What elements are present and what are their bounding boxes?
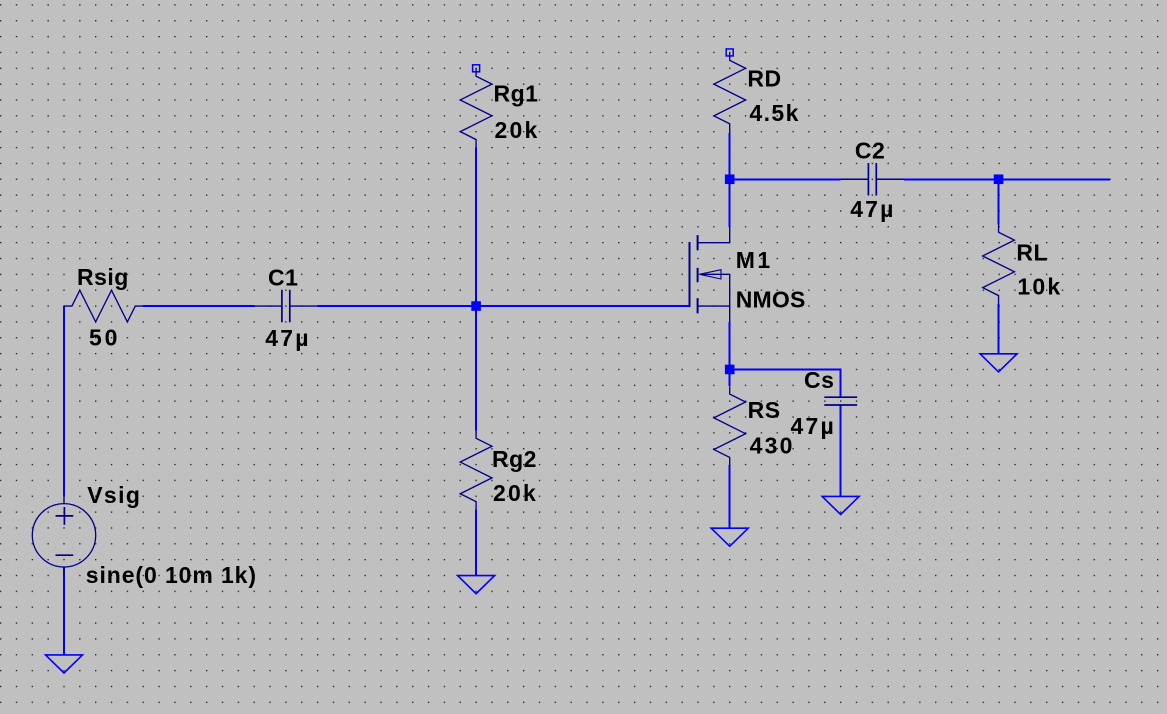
svg-text:sine(0 10m 1k): sine(0 10m 1k) [86,562,257,588]
terminal square (RD top) [726,49,733,56]
wire: M1 source to node C [729,322,731,370]
wire: Rg1 terminal lead to node A (vertical) [475,148,477,307]
ground (RS) [711,528,748,546]
wire: node A down to Rg2 top [475,306,477,430]
svg-text:RL: RL [1016,240,1048,266]
svg-text:NMOS: NMOS [736,287,806,313]
wire: node B down to RL top [998,179,1000,224]
svg-text:Rg1: Rg1 [494,81,539,107]
capacitor C1 [254,290,317,323]
capacitor C2 [841,163,904,196]
wire: RD bottom to drain node [729,133,731,179]
svg-text:Rg2: Rg2 [492,446,537,472]
svg-text:20k: 20k [495,117,540,143]
svg-text:M1: M1 [736,247,773,273]
svg-text:Vsig: Vsig [87,482,141,508]
ground (Rg2) [458,576,495,594]
wire: Rsig right to C1 left (main horizontal) [143,305,254,307]
wire: C2 right to output end through node B [904,178,1110,180]
capacitor Cs [824,397,857,405]
terminal square (Rg1 top) [473,65,480,72]
svg-text:C1: C1 [268,264,298,290]
svg-text:47µ: 47µ [850,196,895,222]
wire: RS bottom to ground [729,465,731,528]
node B junction [994,174,1004,184]
wire: drain node to M1 drain [729,179,731,227]
voltage source Vsig [32,496,95,575]
node C junction (source) [725,365,735,375]
svg-text:47µ: 47µ [265,325,310,351]
svg-text:Cs: Cs [804,367,834,393]
resistor RD [714,52,746,133]
svg-text:50: 50 [89,325,120,351]
svg-text:10k: 10k [1017,274,1062,300]
svg-text:Rsig: Rsig [77,264,129,290]
svg-text:RS: RS [748,397,781,423]
wire: node C to Cs top corner [730,369,841,397]
wire: Cs bottom to ground [840,405,842,496]
resistor Rg2 [460,430,492,509]
ground (RL) [980,354,1017,372]
svg-text:20k: 20k [493,480,538,506]
wire: Vsig bottom to ground [63,567,65,655]
svg-text:RD: RD [747,65,781,91]
resistor Rg1 [460,68,492,147]
svg-text:4.5k: 4.5k [749,100,799,126]
wire: C1 right to M1 gate through node A [318,305,690,307]
resistor RL [983,224,1015,303]
ground (Cs) [822,496,859,514]
wire: Rg2 bottom to ground [475,510,477,576]
wire: RL bottom to ground [998,303,1000,353]
ground (Vsig) [46,655,83,673]
node A junction [471,301,481,311]
wire: drain node to C2 left [730,178,841,180]
svg-text:47µ: 47µ [791,413,836,439]
node D junction (drain) [725,174,735,184]
resistor RS [714,386,746,465]
wire: node C to RS top [729,369,731,386]
svg-text:C2: C2 [855,138,885,164]
wire: Vsig top to Rsig left corner (vertical) [63,306,65,495]
transistor M1 (NMOS) [690,227,730,322]
resistor Rsig [64,290,143,322]
svg-text:430: 430 [750,433,795,459]
